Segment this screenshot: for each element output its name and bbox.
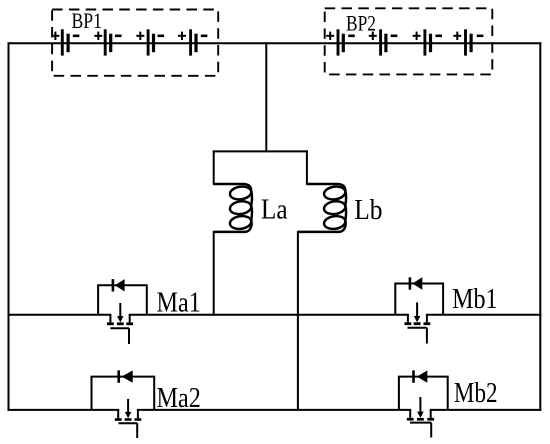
battery cell BP2.1 plates <box>337 29 345 55</box>
polarity marks battery cell BP1.2 <box>94 32 121 40</box>
wire row2 right segment <box>431 409 541 411</box>
wire Lb bottom to row2 <box>297 232 299 410</box>
diode of Mb2 (cathode bar + triangle pointing left) <box>414 370 428 382</box>
wire La top <box>213 151 215 183</box>
battery pack BP1 dashed box <box>52 10 218 76</box>
battery cell BP1.3 plates <box>147 29 155 55</box>
wire row2 middle segment <box>138 409 410 411</box>
label Ma2 <box>157 383 201 414</box>
battery cell BP1.1 plates <box>61 29 70 55</box>
label BP1 <box>72 9 103 33</box>
polarity marks battery cell BP2.1 <box>326 32 355 40</box>
inductor La <box>214 184 252 232</box>
svg-text:Ma2: Ma2 <box>157 383 201 414</box>
battery cell BP2.4 plates <box>464 29 473 55</box>
transistor Mb2 body-diode loop <box>399 377 448 410</box>
svg-text:Ma1: Ma1 <box>157 287 201 318</box>
inductor Lb <box>298 184 346 232</box>
polarity marks battery cell BP1.1 <box>51 32 79 40</box>
transistor Ma1 channel contacts and legs <box>107 315 133 325</box>
label BP2 <box>346 11 376 35</box>
svg-text:BP2: BP2 <box>346 11 376 35</box>
wire row1 right segment <box>427 314 540 316</box>
wire center bar <box>214 150 307 152</box>
transistor Ma2 body-diode loop <box>92 377 155 410</box>
polarity marks battery cell BP1.4 <box>178 32 207 40</box>
battery cell BP2.2 plates <box>379 29 387 55</box>
transistor Mb1 body arrow <box>414 302 421 322</box>
battery cell BP1.2 plates <box>104 29 113 55</box>
battery pack BP2 dashed box <box>325 8 493 74</box>
battery cell BP2.3 plates <box>423 29 432 55</box>
transistor Mb2 gate <box>410 423 431 438</box>
wire top rail <box>9 42 541 44</box>
label Ma1 <box>157 287 201 318</box>
svg-text:Mb2: Mb2 <box>454 378 498 409</box>
label La <box>261 193 288 225</box>
wire La bottom to row1 <box>213 232 215 315</box>
transistor Mb1 channel contacts and legs <box>405 315 431 325</box>
polarity marks battery cell BP1.3 <box>136 32 164 40</box>
transistor Mb2 channel contacts and legs <box>407 410 434 421</box>
polarity marks battery cell BP2.2 <box>369 32 398 40</box>
transistor Ma1 body-diode loop <box>98 285 147 314</box>
label Lb <box>354 194 382 226</box>
wire center stem <box>265 43 267 151</box>
label Mb1 <box>452 284 498 315</box>
transistor Ma1 body arrow <box>117 303 124 322</box>
transistor Ma2 gate <box>119 423 138 438</box>
transistor Ma2 body arrow <box>125 399 132 418</box>
svg-text:Lb: Lb <box>354 194 382 226</box>
transistor Mb2 body arrow <box>417 397 424 418</box>
diode of Mb1 (cathode bar + triangle pointing left) <box>410 277 422 289</box>
transistor Ma1 gate <box>110 328 129 344</box>
wire Lb top <box>306 151 308 183</box>
wire row1 left segment <box>9 314 111 316</box>
diode of Ma2 (cathode bar + triangle pointing left) <box>119 370 133 382</box>
svg-text:La: La <box>261 193 288 225</box>
transistor Mb1 gate <box>408 328 427 344</box>
wire right rail <box>539 43 541 410</box>
transistor Mb1 body-diode loop <box>395 284 443 315</box>
diode of Ma1 (cathode bar + triangle pointing left) <box>113 279 125 291</box>
wire row1 middle segment <box>130 314 408 316</box>
polarity marks battery cell BP2.3 <box>413 32 442 40</box>
svg-text:BP1: BP1 <box>72 9 103 33</box>
wire row2 left segment <box>9 409 119 411</box>
polarity marks battery cell BP2.4 <box>453 32 483 40</box>
transistor Ma2 channel contacts and legs <box>115 410 142 421</box>
label Mb2 <box>454 378 498 409</box>
wire left rail <box>8 43 10 410</box>
battery cell BP1.4 plates <box>189 29 197 55</box>
svg-text:Mb1: Mb1 <box>452 284 498 315</box>
